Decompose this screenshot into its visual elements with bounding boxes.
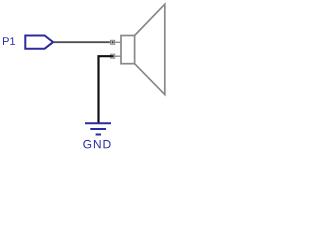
ground bar 1 [85, 122, 111, 124]
port P1 label [3, 37, 15, 45]
speaker LS body [121, 36, 135, 64]
speaker LS pin 2 stub [110, 55, 122, 57]
wire net from speaker pin 2 to ground [99, 56, 113, 122]
ground bar 2 [90, 128, 106, 130]
pin 1 pad [111, 40, 115, 44]
port P1 [25, 36, 53, 49]
ground GND label [83, 140, 110, 149]
speaker LS pin 1 stub [110, 41, 122, 43]
pin 1 wire end dot [112, 41, 114, 43]
speaker LS cone [135, 4, 165, 94]
pin 2 pad [111, 54, 115, 58]
ground bar 3 [96, 134, 101, 136]
wire net from P1 to speaker pin 1 [54, 41, 113, 43]
